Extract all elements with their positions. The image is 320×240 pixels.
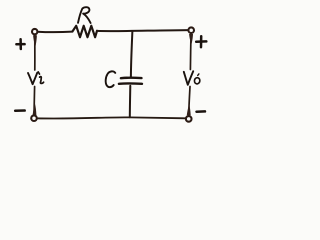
minus sign Vi bbox=[15, 109, 25, 112]
wire top-right (resistor to right node, through cap junction) bbox=[97, 30, 188, 31]
wire right branch upper bbox=[189, 34, 192, 70]
wire right branch lower bbox=[189, 87, 190, 116]
plus sign Vo bbox=[196, 36, 206, 47]
node bottom-right terminal bbox=[186, 116, 192, 122]
label C bbox=[106, 71, 116, 87]
wire bottom bbox=[37, 117, 186, 118]
arrowhead right bottom (Vo arrow down) bbox=[187, 104, 191, 115]
wire left branch upper bbox=[34, 34, 36, 70]
node bottom-left terminal bbox=[31, 115, 37, 121]
arrowhead left top (Vi arrow up) bbox=[33, 35, 37, 47]
arrowhead right top (Vo arrow) bbox=[189, 34, 193, 45]
capacitor C top plate bbox=[121, 77, 142, 80]
wire capacitor branch lower bbox=[129, 86, 132, 118]
wire top-left (node to resistor) bbox=[37, 31, 72, 33]
node top-right terminal bbox=[188, 27, 194, 33]
minus sign Vo bbox=[197, 110, 206, 113]
capacitor C bottom plate bbox=[119, 82, 142, 85]
wire left branch lower bbox=[33, 87, 36, 116]
node top-left terminal bbox=[32, 29, 37, 34]
label Vo bbox=[184, 71, 200, 85]
label Vi bbox=[28, 72, 44, 84]
wire capacitor branch upper bbox=[131, 31, 133, 76]
arrowhead left bottom (Vi arrow down) bbox=[33, 103, 37, 115]
label R bbox=[78, 7, 91, 23]
resistor R bbox=[72, 26, 97, 37]
plus sign Vi bbox=[16, 39, 24, 49]
